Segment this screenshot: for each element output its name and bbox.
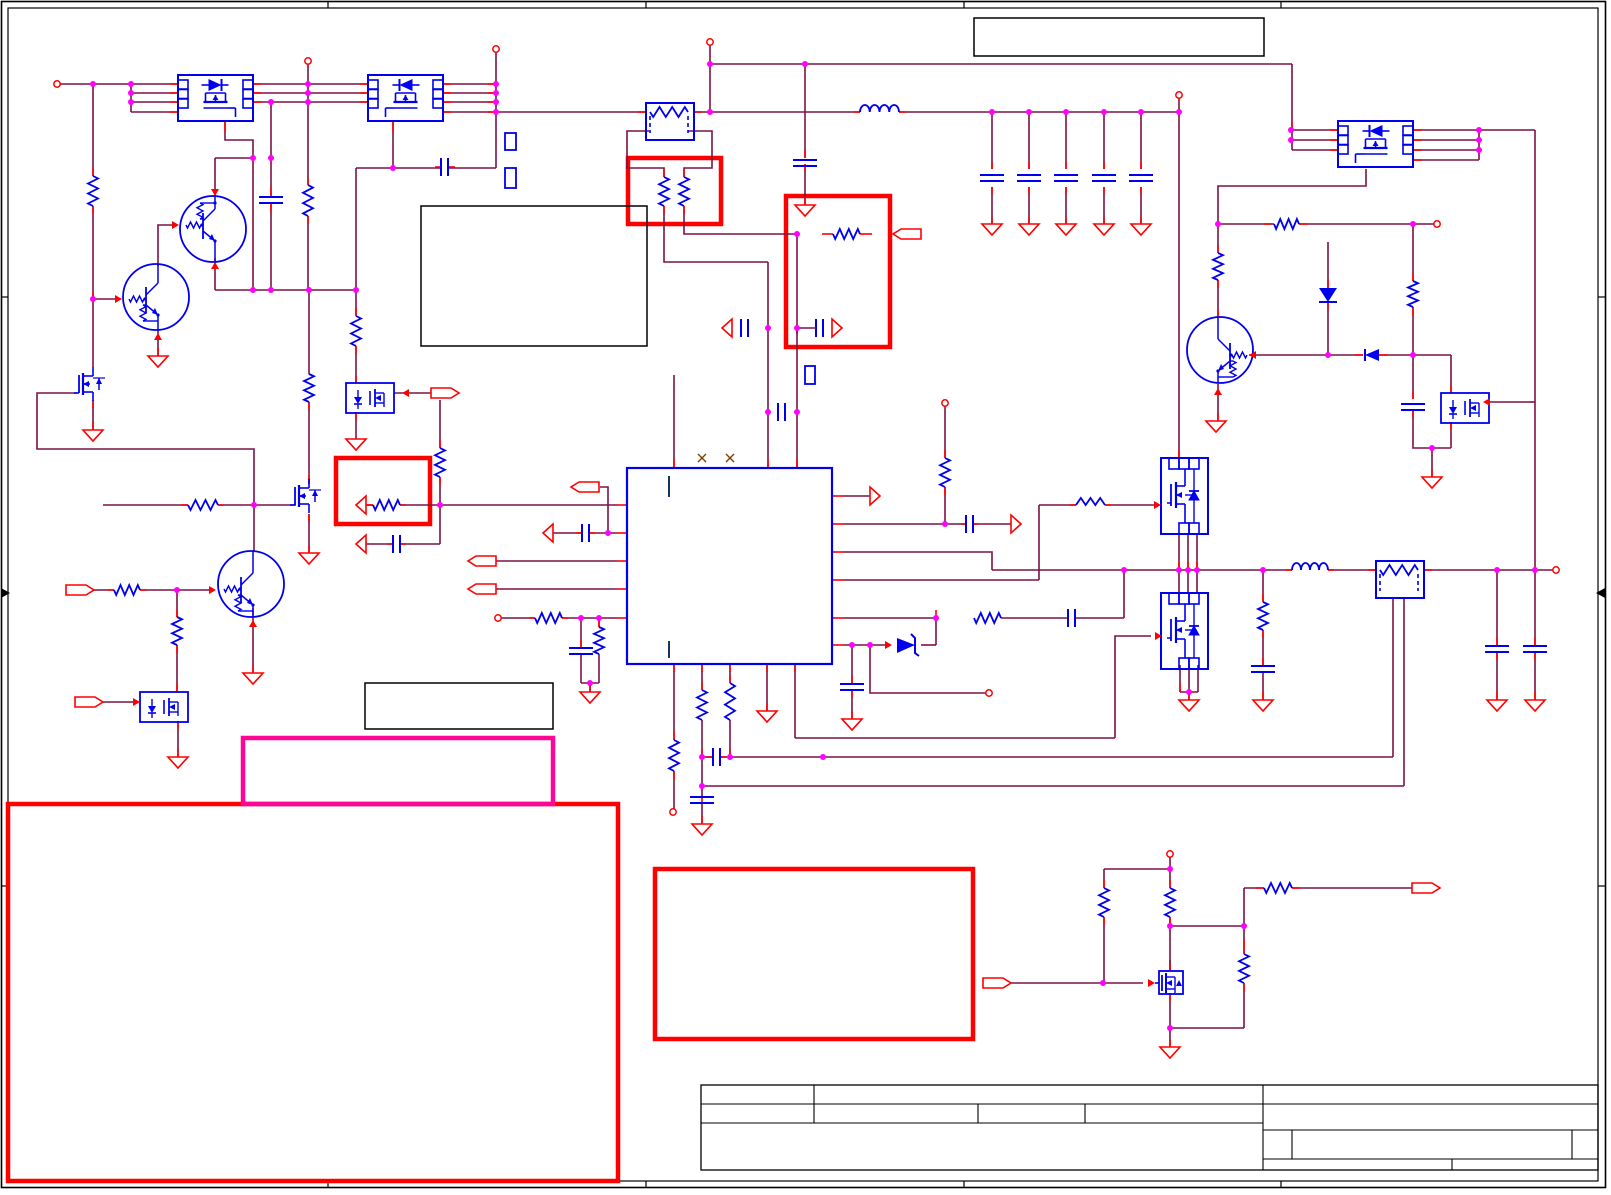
wire IC pin row y=533 right: [589, 532, 617, 534]
wire y=888 resistor to flag: [1292, 887, 1412, 889]
capacitor C18: [690, 796, 714, 798]
wire x=702 lower: [701, 720, 703, 786]
adapter MOSFET package U10: [1338, 121, 1413, 167]
wire x=581 divider drop: [580, 618, 582, 648]
transistor Q2 (digital NPN): [123, 264, 189, 330]
wire current sense row y=786: [702, 785, 1404, 787]
wire pkg8 input: [103, 701, 134, 703]
wire AC input to P-FET bus: [60, 83, 178, 85]
capacitor C19: [569, 647, 593, 649]
wire x=309 rail mid: [308, 290, 310, 374]
wire y=505 after resistor: [400, 504, 617, 506]
wire gate feed row y=738: [795, 737, 1115, 739]
wire gate row y=505 to Q4: [218, 504, 296, 506]
resistor R5: [435, 448, 445, 477]
red arrow Q1 collector arrow: [211, 189, 219, 196]
wire terminal drop x=308: [307, 64, 309, 185]
open terminal terminal T11: [986, 690, 992, 696]
wire left rail lower: [92, 206, 94, 367]
diode D2 (horizontal): [1365, 349, 1379, 361]
resistor R15: [1099, 888, 1109, 917]
ground GND cap bank 4: [1094, 224, 1114, 235]
resistor R27: [1274, 219, 1299, 229]
wire diode D1 net: [1327, 242, 1329, 288]
wire x=1413 divider drop: [1412, 224, 1414, 281]
sense resistor RS2 (4-terminal): [1376, 561, 1424, 598]
ground GND under Q7: [1160, 1047, 1180, 1058]
zener diode D3: [897, 638, 915, 653]
transistor Q6 (digital PNP): [1187, 317, 1253, 383]
wire y=757 cap to node: [720, 756, 730, 758]
resistor R10: [1213, 253, 1223, 280]
wire pkg4 output line 2: [1414, 139, 1479, 141]
wire terminal stub: [1169, 857, 1171, 869]
resistor R19: [1408, 281, 1418, 307]
wire x=1104 divider: [1103, 869, 1105, 888]
red arrow Q10 gate arrow: [1154, 501, 1161, 509]
capacitor C8: [392, 535, 394, 553]
wire Q7 drain: [1169, 993, 1171, 1028]
wire x=852 cap to ground: [851, 690, 853, 719]
open terminal terminal T3: [493, 46, 499, 52]
wire pkg8 source to ground: [177, 721, 179, 757]
wire pkg4 output line 1: [1414, 129, 1535, 131]
capacitor C10: [259, 196, 283, 198]
capacitor C4: [1067, 609, 1069, 627]
port flag ENABLE: [75, 697, 103, 707]
open terminal terminal T10: [670, 809, 676, 815]
port arrow IC y=524: [1011, 515, 1021, 533]
ground GND under C23: [1253, 700, 1273, 711]
wire y=757 cap left: [702, 756, 713, 758]
capacitor C22: [1523, 645, 1547, 647]
capacitor C1: [440, 158, 442, 176]
wire output rail y=570: [992, 569, 1292, 571]
ground GND under C18: [692, 824, 712, 835]
ground GND cap bank 3: [1056, 224, 1076, 235]
wire x=852 cap drop: [851, 645, 853, 684]
capacitor C9: [777, 403, 779, 421]
wire Q6 emitter to ground: [1217, 384, 1219, 421]
wire y=224 to terminal: [1299, 223, 1434, 225]
wire x=768 to IC top: [767, 262, 769, 468]
ground GND under Q5: [243, 673, 263, 684]
inductor L1: [860, 105, 899, 112]
jumper pad JP2: [505, 168, 516, 188]
wire Q2 base: [93, 298, 118, 300]
wire pkg6 source pins: [1179, 665, 1181, 692]
jumper pad JP3: [805, 366, 815, 384]
wire Q1A source elbow: [225, 121, 253, 290]
ground GND under Q12: [346, 439, 366, 450]
red arrow Q11 gate arrow: [1155, 632, 1162, 640]
wire battery terminal row: [1104, 868, 1170, 870]
wire bus between packages line 3: [253, 101, 368, 103]
wire y=505 to varistor: [1039, 504, 1076, 506]
resistor R21: [114, 585, 140, 595]
wire main rail y=112 right: [899, 111, 1179, 113]
wire IC bottom pin x=702: [701, 664, 703, 690]
red arrow Q12 output arrow: [402, 389, 409, 397]
resistor R7 (in red box r1): [659, 177, 669, 206]
wire top-right drop x=1292: [1291, 64, 1293, 150]
wire Q2 emitter to ground: [157, 329, 159, 356]
wire terminal x=1179: [1178, 98, 1180, 112]
wire x=271 lower: [270, 204, 272, 290]
wire node to snubber: [1413, 354, 1451, 356]
snubber package Q14: [1441, 393, 1489, 423]
wire x=440 resistor to node: [439, 477, 441, 505]
wire pkg6 drain pins: [1178, 570, 1180, 593]
low-side MOSFET package Q11: [1161, 593, 1208, 669]
wire D1 to base row: [1327, 302, 1329, 355]
ground GND snubber: [1422, 477, 1442, 488]
resistor R12: [697, 690, 707, 720]
wire IC bottom pin x=730: [729, 664, 731, 683]
resistor R8 (in red box r1): [679, 177, 689, 206]
highlight box (red) large bottom-left note area: [8, 804, 618, 1181]
wire Q1 collector branch: [215, 157, 253, 159]
wire bus right line 3: [443, 101, 496, 103]
capacitor C7 (in red box r2): [815, 319, 817, 337]
port arrow IC y=496: [870, 487, 880, 505]
resistor R26: [1264, 883, 1292, 893]
wire y=570 to sense box: [1328, 569, 1376, 571]
wire sense box left kelvin: [627, 131, 664, 177]
diode D1 (vertical): [1319, 288, 1337, 302]
wire IC pin row y=533 left: [553, 532, 582, 534]
wire IC bottom pin x=795: [794, 664, 796, 738]
wire IC pin row y=617 right: [562, 617, 617, 619]
wire IC pin y=645: [843, 644, 885, 646]
high-side MOSFET package Q10: [1161, 458, 1208, 534]
wire Q3 gate net: [37, 393, 254, 505]
wire x=1479 tie: [1478, 130, 1480, 160]
ground GND under C17: [842, 719, 862, 730]
wire VCC cap to ground: [804, 164, 806, 205]
wire Q5 emitter to ground: [252, 616, 254, 673]
red arrow zener anode arrow: [885, 641, 892, 649]
wire pkg7 gate: [1489, 401, 1529, 403]
wire x=945 resistor to node: [944, 487, 946, 524]
resistor R16: [1165, 888, 1175, 917]
resistor R1: [88, 176, 98, 206]
wire pkg4 gate return: [1218, 169, 1366, 253]
port flag ACOK (in red box r2): [893, 229, 921, 239]
wire Q5 base row: [94, 589, 114, 591]
resistor R25: [974, 613, 1001, 623]
wire x=1115 riser to pkg6 gate: [1115, 636, 1151, 738]
red arrow Q1 base arrow: [172, 221, 179, 229]
wire IC pin y=580 to driver: [843, 579, 1039, 581]
wire x=945 feedback drop: [944, 406, 946, 458]
red arrow Q1 emitter arrow: [211, 262, 219, 269]
wire bus between packages line 1: [253, 83, 368, 85]
wire main rail y=112 left: [496, 111, 646, 113]
wire x=1170 divider: [1169, 869, 1171, 888]
capacitor C23: [1251, 665, 1275, 667]
wire x=1413 to cap: [1412, 355, 1414, 399]
load switch package Q13 (zener+FET): [140, 692, 188, 722]
wire main rail y=112 mid: [694, 111, 860, 113]
wire sense box right kelvin: [684, 131, 712, 177]
resistor R18: [1258, 602, 1268, 630]
resistor R4: [351, 316, 361, 346]
wire x=730 resistor to row: [729, 720, 731, 757]
wire node row y=290: [215, 289, 356, 291]
ground GND under C21: [1487, 700, 1507, 711]
open terminal terminal T9: [495, 615, 501, 621]
wire pkg4 output line 4: [1414, 159, 1479, 161]
wire Q1 emitter: [214, 258, 216, 290]
ground GND under Q3: [83, 430, 103, 441]
wire x=1263 cap to ground: [1262, 672, 1264, 700]
red arrow Q5 base arrow: [209, 586, 216, 594]
wire y=570 right of sense box: [1424, 569, 1553, 571]
wire x=1535 adapter rail: [1534, 130, 1536, 645]
open terminal terminal T5: [1176, 92, 1182, 98]
wire left rail upper: [92, 84, 94, 176]
red arrow Q2 emitter arrow: [154, 333, 162, 340]
wire IC top pin x=674: [673, 375, 675, 468]
port flag SDA: [468, 556, 496, 566]
jumper pad JP1: [505, 133, 516, 150]
open terminal terminal T8: [1553, 567, 1559, 573]
wire x=271 upper: [270, 102, 272, 196]
wire y=168 row right: [449, 167, 496, 169]
resistor R2: [303, 185, 313, 216]
highlight box (red) around gate resistor: [336, 458, 430, 524]
capacitor C6: [740, 319, 742, 337]
wire bus line 4: [131, 111, 178, 113]
capacitor bank C11-C15: [980, 174, 1004, 176]
wire x=1170 resistor to drain: [1169, 917, 1171, 971]
wire y=926 link: [1170, 925, 1244, 927]
wire pkg4 input line 2: [1292, 139, 1338, 141]
note box b1: [421, 206, 647, 346]
wire pkg6 source to ground: [1188, 692, 1190, 700]
ground GND under Q2: [148, 356, 168, 367]
wire IC pin y=552 elbow: [843, 552, 992, 570]
wire x=674 resistor to terminal: [673, 771, 675, 809]
charger IC U3: [627, 468, 832, 664]
wire cap bank drops: [991, 112, 993, 169]
wire r2 lower row: [797, 327, 816, 329]
ground GND under C22: [1525, 700, 1545, 711]
wire pkg4 input line 3: [1292, 149, 1338, 151]
wire y=617 cap to riser: [1075, 617, 1124, 619]
wire x=581 below cap: [580, 654, 582, 683]
resistor R22: [535, 613, 562, 623]
wire snubber right leg: [1450, 355, 1452, 393]
wire bus right line 4: [443, 111, 496, 113]
highlight box (red) around ACDET divider: [786, 196, 890, 347]
port arrow y=533 (input): [543, 524, 553, 542]
wire pkg4 output line 3: [1414, 149, 1479, 151]
wire x=702 cap to ground: [701, 803, 703, 824]
wire pkg6 source tie: [1180, 691, 1198, 693]
wire x=177 to pkg8: [176, 645, 178, 692]
wire x=936 riser: [935, 618, 937, 645]
wire pkg5 source pins: [1178, 533, 1180, 570]
wire x=1404 kelvin riser: [1403, 598, 1405, 786]
wire divider row y=224: [1218, 223, 1274, 225]
wire Q2 collector to Q1 base: [158, 225, 172, 266]
wire y=544 right of cap: [400, 543, 440, 545]
resistor R23 (in red box r2): [833, 229, 860, 239]
wire snubber ground stub: [1431, 448, 1433, 477]
wire x=1393 kelvin riser: [1392, 598, 1394, 757]
no-connect X mark 1: [698, 454, 706, 462]
open terminal terminal T1: [54, 81, 60, 87]
resistor R11: [669, 740, 679, 771]
port flag CHG_EN: [983, 978, 1011, 988]
wire IC right pin y=524: [843, 523, 966, 525]
wire base row to D2: [1328, 354, 1363, 356]
border alignment arrow right: [1596, 588, 1605, 598]
wire gate row y=505 left: [103, 504, 188, 506]
port flag CTRL (to IC): [571, 482, 599, 492]
open terminal terminal T12: [1167, 851, 1173, 857]
capacitor C3: [965, 515, 967, 533]
red arrow Q6 emitter arrow: [1214, 388, 1222, 395]
wire D2 to node: [1379, 354, 1413, 356]
P-FET package U1 (dual MOSFET, left): [178, 75, 253, 121]
red arrow Q14 gate arrow: [1483, 398, 1490, 406]
wire IC pin row y=589: [496, 588, 617, 590]
wire x=1244 riser: [1243, 888, 1245, 954]
wire Q5 base row right: [140, 589, 210, 591]
wire x=1039 up: [1038, 505, 1040, 580]
wire x=1497 cap to ground: [1496, 652, 1498, 700]
ground GND under Q13: [168, 757, 188, 768]
wire x=599 drop: [598, 618, 600, 627]
capacitor C21: [1485, 645, 1509, 647]
wire y=617 resistor to cap: [1001, 617, 1068, 619]
note box b2 top right: [974, 18, 1264, 56]
highlight box (magenta) note strip: [243, 738, 553, 804]
red arrow Q6 base arrow: [1249, 351, 1256, 359]
wire y=544 branch vertical: [439, 505, 441, 544]
port arrow y=328 (input): [722, 319, 732, 337]
wire IC pin row y=561: [496, 560, 617, 562]
wire x=440 flag drop: [439, 400, 441, 448]
wire IC bottom pin x=767 to ground: [766, 664, 768, 711]
wire pkg3 output: [394, 392, 431, 394]
wire VCC stub top: [804, 64, 806, 158]
wire pkg4 input line 1: [1292, 129, 1338, 131]
port flag ADAPTER_IN: [66, 585, 94, 595]
wire pkg3 to ground: [355, 412, 357, 439]
wire Q7 gate row: [1011, 982, 1143, 984]
wire bus right of Q2 pkg line 1: [443, 83, 496, 85]
ground GND cap bank 1: [982, 224, 1002, 235]
highlight box (red) around sense divider R network: [628, 158, 721, 224]
sense resistor RS1 (4-terminal): [646, 103, 694, 140]
junction dots: [90, 81, 96, 87]
wire x=1104 resistor to gate row: [1103, 917, 1105, 983]
ground GND under Q11: [1179, 700, 1199, 711]
wire x=308 lower: [307, 216, 309, 290]
IC tick bottom: [668, 641, 670, 658]
wire IC pin y=617: [843, 617, 936, 619]
note box b3: [365, 683, 553, 729]
port arrow y=505 (input): [356, 496, 366, 514]
wire x=1413 resistor to row: [1412, 307, 1414, 355]
red arrow Q7 gate arrow: [1148, 979, 1155, 987]
P-FET package U2 (dual MOSFET, right): [368, 75, 443, 121]
wire join y=683: [581, 682, 599, 684]
red pin stubs: [170, 83, 178, 85]
wire y=505 through red box to IC: [366, 504, 373, 506]
capacitor C5: [712, 748, 714, 766]
wire x=309 to Q4 drain: [308, 402, 310, 484]
wire pkg7 gate to rail: [1529, 401, 1535, 403]
wire r1 right resistor down: [684, 206, 797, 234]
inductor L2: [1292, 563, 1328, 570]
wire x=1179 long rail: [1178, 112, 1180, 458]
ground GND in red box r2: [795, 205, 815, 216]
wire input bus vertical: [130, 84, 132, 112]
resistor R9: [940, 458, 950, 487]
wire x=702 cap top: [701, 786, 703, 797]
wire r1 left resistor to IC top: [664, 206, 768, 262]
resistor R20: [188, 500, 218, 510]
wire y=168 row left: [356, 167, 441, 169]
port flag SCL: [468, 584, 496, 594]
wire pkg7 to corner: [1450, 422, 1452, 448]
border tick marks: [327, 2, 329, 9]
wire x=599 below resistor: [598, 654, 600, 683]
capacitor C16: [793, 159, 817, 161]
wire x=870 to test point: [870, 645, 986, 693]
wire bus right line 2: [443, 92, 496, 94]
wire top net from terminal: [710, 45, 1292, 64]
wire IC right pin y=496 to port: [843, 495, 870, 497]
resistor R17: [1239, 954, 1249, 983]
ground GND under Q4: [299, 553, 319, 564]
wire IC pin row y=617 left: [501, 617, 535, 619]
open terminal terminal T6: [942, 400, 948, 406]
wire y=524 cap to port: [973, 523, 1011, 525]
port arrow output in r2: [832, 319, 842, 337]
no-connect X mark 2: [726, 454, 734, 462]
title block: [701, 1085, 1598, 1170]
wire terminal drop x=496: [495, 52, 497, 168]
wire bus between packages line 2: [253, 92, 368, 94]
port arrow y=544 (input): [356, 535, 366, 553]
capacitor C20: [1401, 403, 1425, 405]
MOSFET Q7 (discrete small): [1159, 971, 1183, 994]
wire Q7 top: [1169, 960, 1171, 971]
wire Q6 base row: [1249, 354, 1328, 356]
wire varistor to pkg5 gate: [1105, 504, 1154, 506]
capacitor C2: [581, 524, 583, 542]
wire bus line 3: [131, 101, 178, 103]
wire x=1497 cap drop: [1496, 570, 1498, 646]
ground GND cap bank 5: [1131, 224, 1151, 235]
wire pkg2 source drop: [392, 121, 394, 168]
IC pin-1 tick: [668, 476, 670, 497]
wire Q3 source to ground: [92, 400, 94, 430]
ground GND under divider: [580, 692, 600, 703]
open terminal terminal T2: [305, 58, 311, 64]
resistor R24 (in red box r3): [373, 500, 400, 510]
transistor Q1 (digital PNP): [180, 196, 246, 262]
wire y=1028 row: [1170, 1027, 1244, 1029]
wire flag elbow to y=533: [600, 487, 608, 533]
ground GND under Q6: [1206, 421, 1226, 432]
